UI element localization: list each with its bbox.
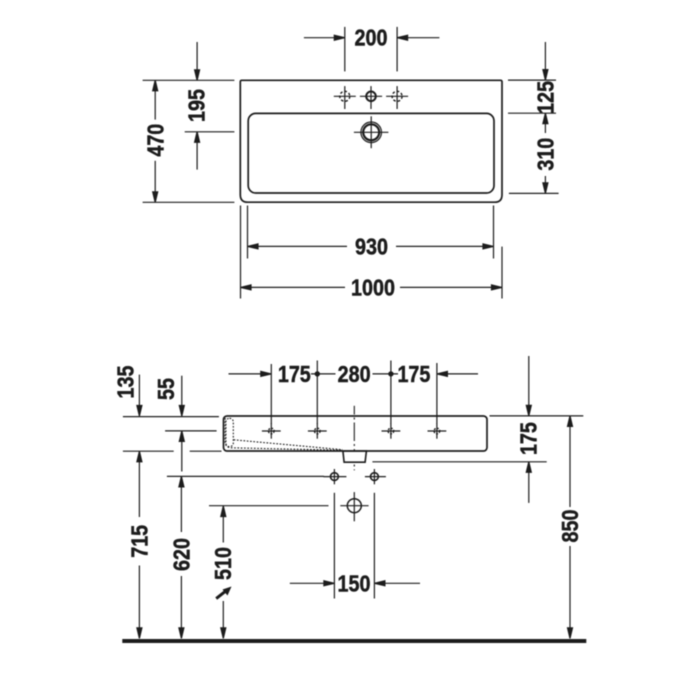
dim 715: dimension line with arrows — [137, 451, 142, 638]
fixing hole 2 (side face) — [308, 423, 327, 438]
fixing hole 4 (side face) — [428, 423, 447, 438]
svg-text:135: 135 — [112, 366, 139, 399]
dim 620: extension line (wall bolt holes) — [167, 475, 324, 477]
dim 195: extension line at overflow center — [185, 131, 235, 133]
dim 175 right: bottom arrow — [526, 462, 531, 503]
dim 150: left arrow — [290, 581, 335, 586]
svg-text:715: 715 — [126, 525, 153, 558]
chain dim: dot separator 1 — [315, 371, 320, 376]
basin inner bowl rim (top view) — [248, 113, 494, 193]
fixing hole 3 (side face) — [382, 423, 401, 438]
dim 150: extension lines — [334, 493, 374, 599]
wall bolt hole left — [323, 469, 346, 484]
hidden bowl floor slope (dotted line to drain) — [234, 440, 343, 450]
center line (dash-dot) — [353, 406, 355, 471]
dim 135: arrow — [137, 375, 142, 416]
hidden bowl outer wall (dotted, hugs left and bottom of body) — [225, 418, 342, 450]
svg-text:175: 175 — [515, 422, 542, 455]
faucet hole left (dashed optional hole) — [334, 86, 356, 109]
wall bolt hole right — [365, 469, 386, 484]
svg-text:150: 150 — [338, 570, 371, 597]
svg-text:200: 200 — [355, 24, 388, 51]
dim 150: right arrow — [374, 581, 420, 586]
svg-text:850: 850 — [556, 510, 583, 543]
chain dim 175/280/175: extension lines — [271, 361, 437, 425]
svg-text:175: 175 — [278, 360, 311, 387]
dim 620: dimension line with arrows — [179, 476, 184, 638]
floor line (thick ground line) — [122, 639, 586, 643]
svg-text:55: 55 — [152, 378, 179, 400]
dim 310: arrows and extension line — [509, 113, 559, 193]
svg-text:510: 510 — [209, 547, 236, 580]
chain dim: left arrow — [229, 371, 272, 376]
drain outlet circle — [340, 492, 368, 521]
dim 55: bottom arrow — [179, 431, 184, 472]
hidden inner bowl wall (dotted capsule) — [226, 418, 233, 446]
dim 200: extension lines — [345, 27, 397, 72]
drain stub (trapezoid under body) — [343, 451, 367, 462]
side view extension lines (left of body) — [123, 417, 222, 452]
dim 930: dimension line with arrows — [248, 244, 494, 249]
dim 850: dimension line with arrows — [568, 416, 573, 639]
dim 510: extension line (drain center) — [209, 505, 329, 507]
right side extension lines — [372, 416, 583, 462]
faucet hole center (solid circle with cross) — [360, 86, 382, 109]
svg-text:175: 175 — [397, 360, 430, 387]
washbasin outer outline (top view) — [240, 80, 502, 202]
height adjustability arrow (points NE) — [216, 587, 231, 599]
dim 1000: dimension line with arrows — [241, 285, 503, 290]
basin body outline (side view) — [224, 416, 488, 451]
dim 200: left arrow — [304, 35, 345, 40]
dim 195: bottom arrow — [195, 132, 200, 170]
svg-text:280: 280 — [338, 360, 371, 387]
svg-text:310: 310 — [532, 138, 559, 171]
dim 55: top arrow — [179, 376, 184, 416]
svg-text:930: 930 — [355, 233, 388, 260]
svg-text:620: 620 — [168, 538, 195, 571]
fixing hole 1 (side face) — [262, 423, 281, 438]
dim 470: extension lines — [143, 80, 235, 202]
chain dim: right arrow — [437, 371, 478, 376]
svg-text:1000: 1000 — [351, 274, 395, 301]
dim 175 right: top arrow — [526, 356, 531, 416]
dim 200: right arrow — [397, 35, 439, 40]
dim 470: dimension line with arrows — [153, 80, 158, 202]
chain dim: dot separator 2 — [388, 371, 393, 376]
chain dim: line segments — [311, 373, 398, 375]
dim 510: dimension line with arrows — [221, 506, 226, 638]
dim 1000: extension lines — [241, 206, 503, 299]
svg-text:195: 195 — [183, 89, 210, 122]
dim 125: extension lines and top arrow — [508, 42, 556, 113]
dim 195: top arrow — [195, 42, 200, 80]
svg-text:470: 470 — [142, 124, 169, 157]
faucet hole right (dashed optional hole) — [386, 86, 408, 109]
dim 930: extension lines — [248, 206, 494, 259]
overflow hole (top view, concentric circles with cross) — [354, 116, 389, 148]
svg-text:125: 125 — [532, 81, 559, 114]
